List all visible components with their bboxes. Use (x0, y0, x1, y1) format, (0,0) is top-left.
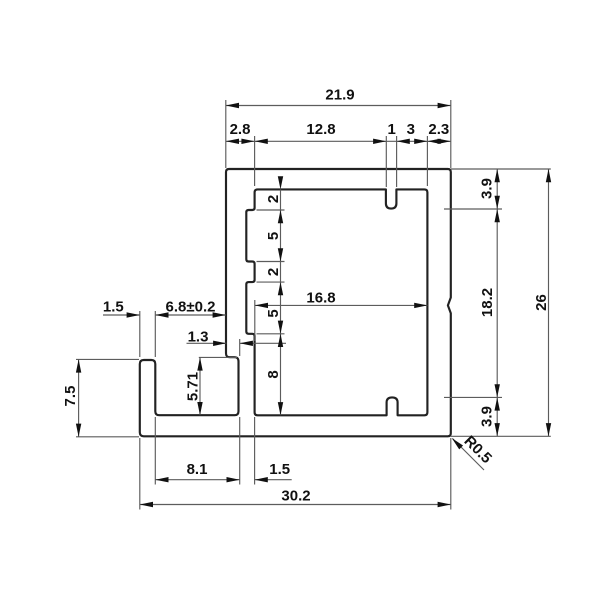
svg-text:3.9: 3.9 (479, 178, 496, 199)
svg-text:30.2: 30.2 (281, 488, 310, 505)
svg-text:6.8±0.2: 6.8±0.2 (166, 299, 216, 316)
dim line 16.8 (255, 304, 428, 306)
svg-text:12.8: 12.8 (306, 121, 335, 138)
extension lines top (225, 100, 227, 168)
dim line 8.1 (155, 479, 239, 481)
svg-text:8.1: 8.1 (187, 461, 208, 478)
svg-text:1.5: 1.5 (269, 461, 290, 478)
1.3 dim (187, 342, 227, 344)
svg-text:7.5: 7.5 (62, 386, 79, 407)
arrows 7.5 (76, 359, 81, 372)
svg-text:1.5: 1.5 (103, 299, 124, 316)
arrow 1.5 bottom (255, 477, 268, 482)
bottom ext lines (154, 417, 156, 485)
svg-text:3: 3 (407, 121, 415, 138)
svg-text:R0.5: R0.5 (460, 433, 494, 467)
arrows 30.2 (140, 502, 153, 507)
arrows chain (278, 176, 283, 189)
svg-text:2.8: 2.8 (230, 121, 251, 138)
profile inner cavity outline (246, 189, 427, 415)
arrows right chain (495, 169, 500, 182)
svg-text:16.8: 16.8 (306, 290, 335, 307)
svg-text:21.9: 21.9 (325, 87, 354, 104)
svg-text:3.9: 3.9 (479, 406, 496, 427)
dim line 21.9 (226, 105, 451, 107)
svg-text:1.3: 1.3 (188, 329, 209, 346)
svg-text:26: 26 (533, 294, 550, 311)
svg-text:1: 1 (388, 121, 396, 138)
svg-text:18.2: 18.2 (479, 288, 496, 317)
arrows 8.1 (155, 477, 168, 482)
svg-text:5: 5 (265, 232, 282, 240)
arrows left 1.5 / 6.8 (127, 312, 140, 317)
svg-text:8: 8 (265, 370, 282, 378)
profile outer outline (140, 169, 451, 436)
dim line row2 (226, 140, 451, 142)
right reference lines (451, 168, 551, 170)
svg-text:2: 2 (265, 268, 282, 276)
dim line 26 (548, 169, 550, 436)
arrows 16.8 (255, 303, 268, 308)
dim line 3.9/18.2/3.9 (496, 169, 498, 436)
arrows 26 (546, 169, 551, 182)
arrows 5.71 (197, 357, 202, 370)
arrows 1.3 (213, 341, 226, 346)
arrows row2 (226, 139, 239, 144)
arrows 21.9 (226, 103, 239, 108)
svg-text:5: 5 (265, 309, 282, 317)
svg-text:5.71: 5.71 (185, 372, 202, 401)
R0.5 leader (453, 439, 485, 471)
7.5 dim (78, 359, 80, 436)
arrow R0.5 (450, 436, 463, 449)
5.71 dim (199, 357, 201, 415)
dim line 30.2 (140, 504, 451, 506)
left 1.5 / 6.8 dim (103, 314, 140, 316)
dim line 1.5 bottom tail (255, 479, 292, 481)
chain dim line (280, 189, 282, 415)
svg-text:2: 2 (265, 195, 282, 203)
svg-text:2.3: 2.3 (428, 121, 449, 138)
